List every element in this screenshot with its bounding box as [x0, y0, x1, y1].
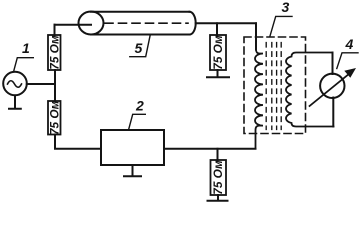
generator sine wave	[8, 81, 22, 88]
ground (R4)	[208, 195, 228, 201]
wire box 2 to transformer bottom	[164, 148, 256, 150]
svg-text:5: 5	[135, 40, 143, 56]
transformer secondary coil L2	[286, 53, 334, 127]
meter arrow	[310, 72, 353, 107]
coax line 5 body	[91, 12, 190, 35]
svg-text:75 Ом: 75 Ом	[211, 35, 225, 70]
wire R1 to R2 (node A)	[54, 70, 56, 101]
svg-text:3: 3	[282, 0, 290, 15]
label 3 pointer	[270, 16, 292, 36]
svg-text:75 Ом: 75 Ом	[47, 100, 61, 135]
wire top stub above R1	[54, 25, 56, 35]
meter M (label 4)	[320, 74, 344, 98]
wire stub node B to R3	[216, 23, 218, 35]
resistor R2	[48, 101, 61, 135]
label 4 pointer	[337, 53, 358, 69]
resistor R1	[48, 35, 61, 70]
wire secondary top to meter	[332, 53, 334, 75]
coax line 5 right cap	[190, 12, 196, 35]
svg-text:75 Ом: 75 Ом	[211, 160, 225, 195]
box 2	[101, 130, 164, 165]
coax line 5 left end disc	[79, 12, 104, 35]
wire coax to transformer top	[196, 22, 256, 24]
svg-text:4: 4	[345, 36, 354, 52]
resistor R4	[211, 160, 227, 195]
label 2 pointer	[129, 114, 145, 128]
transformer primary coil L1	[255, 50, 263, 149]
ground (R3)	[207, 70, 229, 77]
resistor R3	[210, 35, 226, 70]
meter arrow head	[344, 68, 356, 78]
wire R2 bottom to box 2	[55, 135, 101, 149]
ground (generator)	[9, 96, 21, 109]
generator G1	[3, 72, 27, 96]
svg-text:2: 2	[135, 98, 144, 114]
coax line 5 dashed axis	[105, 22, 188, 24]
wire meter bottom to secondary bottom	[332, 98, 334, 127]
transformer shield box 3 (dashed)	[244, 37, 306, 134]
wire stub node C to R4	[217, 149, 219, 160]
transformer core (dashed lines)	[266, 43, 281, 130]
wire down into primary coil	[255, 23, 257, 49]
ground (box 2)	[124, 165, 141, 176]
wire top horizontal to coax	[55, 24, 92, 26]
svg-text:75 Ом: 75 Ом	[47, 35, 61, 70]
wire generator to node A	[27, 83, 55, 85]
label 1 pointer	[14, 58, 33, 71]
label 5 pointer	[130, 36, 150, 57]
svg-text:1: 1	[22, 40, 30, 56]
